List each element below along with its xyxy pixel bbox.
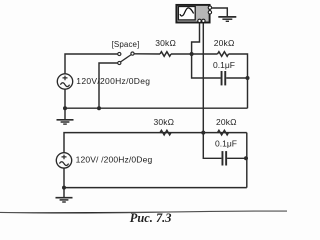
AC source V1 <box>57 74 72 89</box>
oscilloscope XSC1 <box>176 5 211 23</box>
wire switch lower throw to ground rail <box>99 63 118 108</box>
junction C1 right <box>246 76 250 80</box>
svg-text:120V/ /200Hz/0Deg: 120V/ /200Hz/0Deg <box>76 154 153 164</box>
wire scope top terminal to ground <box>211 8 227 16</box>
svg-text:30kΩ: 30kΩ <box>154 117 175 127</box>
junction top rail at switch wire <box>97 106 101 110</box>
wire V2 bottom to rail <box>63 168 65 187</box>
ground rail of top circuit <box>65 107 248 109</box>
wire scope channel B down to bottom circuit node <box>202 23 204 133</box>
svg-text:Рис. 7.3: Рис. 7.3 <box>130 211 172 225</box>
junction node A <box>190 52 194 56</box>
resistor R3 30kOhm (bottom) <box>160 130 171 135</box>
capacitor C2 0.1uF (bottom) <box>222 151 228 165</box>
resistor R2 20kOhm (top) <box>218 52 229 57</box>
resistor R1 30kOhm (top) <box>160 52 171 57</box>
wire C2 right plate to right vertical <box>227 157 247 159</box>
wire top-left vertical from V2 to its top wire <box>64 133 247 153</box>
svg-text:0.1μF: 0.1μF <box>215 139 237 149</box>
switch S1 [Space] <box>118 52 134 65</box>
horizontal rule above caption <box>0 211 287 213</box>
svg-text:20kΩ: 20kΩ <box>216 117 237 127</box>
resistor R4 20kOhm (bottom) <box>218 130 229 135</box>
AC source V2 <box>56 153 71 168</box>
svg-text:0.1μF: 0.1μF <box>213 60 235 70</box>
junction top rail at V1 <box>63 106 67 110</box>
wire node A down to capacitor C1 <box>192 54 221 78</box>
wire right vertical of bottom circuit <box>246 133 248 188</box>
capacitor C1 0.1uF (top) <box>221 71 227 85</box>
wire R2 to right corner down to rail <box>229 54 248 108</box>
svg-text:120V/200Hz/0Deg: 120V/200Hz/0Deg <box>76 76 150 86</box>
junction bottom rail at V2 <box>62 186 66 190</box>
junction C2 right <box>244 156 248 160</box>
ground symbol at oscilloscope <box>218 17 236 21</box>
wire node A to R2 <box>192 53 218 55</box>
wire R1 to node A <box>171 53 192 55</box>
wire bottom node down to capacitor C2 <box>203 133 221 159</box>
wire switch to R1 <box>134 53 160 55</box>
wire V1 bottom to rail <box>64 89 66 108</box>
ground symbol below V1 <box>57 108 74 124</box>
wire top-left vertical from V1 to top rail <box>65 54 118 74</box>
ground symbol below V2 <box>56 188 73 202</box>
ground rail of bottom circuit <box>64 187 247 189</box>
svg-text:20kΩ: 20kΩ <box>214 38 235 48</box>
svg-text:[Space]: [Space] <box>112 40 140 49</box>
wire scope channel A jog to node A <box>192 23 200 54</box>
svg-text:30kΩ: 30kΩ <box>155 38 176 48</box>
wire C1 right plate to right vertical <box>226 77 247 79</box>
junction bottom node <box>201 131 205 135</box>
